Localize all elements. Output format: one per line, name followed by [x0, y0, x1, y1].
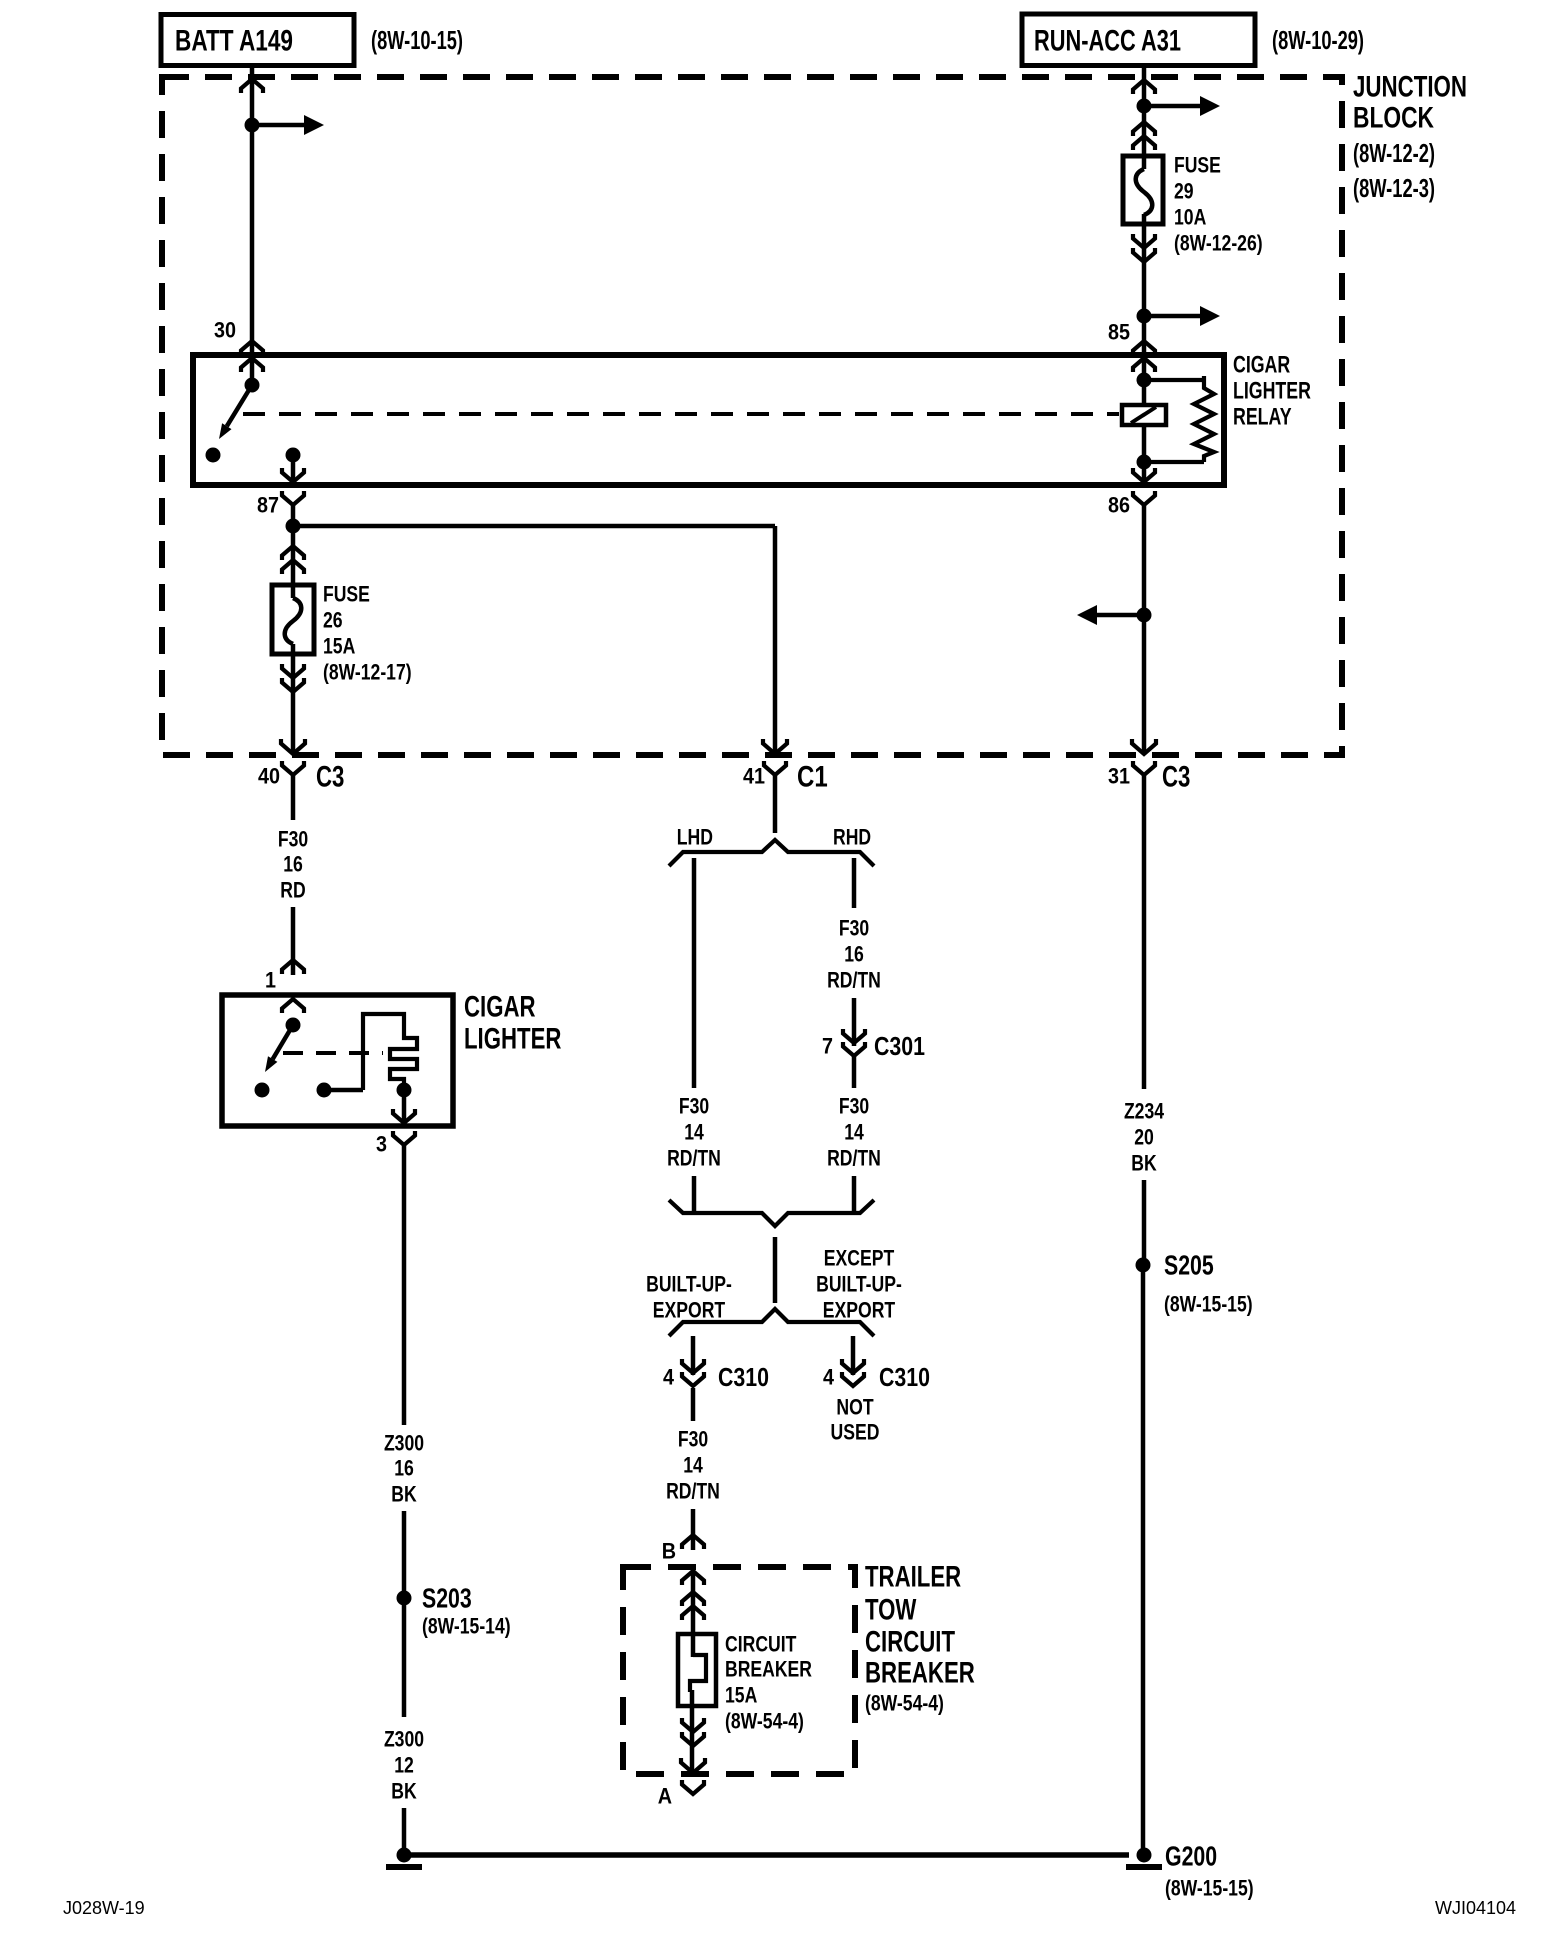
svg-text:F30: F30 — [679, 1094, 709, 1119]
svg-text:Z300: Z300 — [384, 1431, 424, 1456]
svg-text:RHD: RHD — [833, 825, 871, 850]
svg-text:(8W-12-2): (8W-12-2) — [1353, 138, 1435, 168]
svg-text:26: 26 — [323, 608, 343, 633]
svg-text:14: 14 — [683, 1453, 703, 1478]
svg-text:BUILT-UP-: BUILT-UP- — [646, 1272, 732, 1297]
svg-text:BK: BK — [391, 1779, 416, 1804]
svg-text:EXCEPT: EXCEPT — [824, 1246, 895, 1271]
svg-text:(8W-12-26): (8W-12-26) — [1174, 231, 1263, 256]
svg-text:CIGAR: CIGAR — [464, 990, 536, 1023]
svg-text:WJI04104: WJI04104 — [1435, 1898, 1516, 1918]
svg-text:RD/TN: RD/TN — [827, 968, 881, 993]
svg-text:7: 7 — [822, 1034, 833, 1059]
svg-text:Z300: Z300 — [384, 1727, 424, 1752]
svg-text:(8W-10-29): (8W-10-29) — [1272, 25, 1364, 55]
svg-text:F30: F30 — [278, 827, 308, 852]
svg-text:40: 40 — [258, 764, 280, 789]
svg-text:S205: S205 — [1164, 1250, 1214, 1281]
svg-text:LIGHTER: LIGHTER — [1233, 377, 1311, 404]
svg-text:16: 16 — [844, 942, 864, 967]
svg-text:J028W-19: J028W-19 — [63, 1898, 145, 1918]
svg-text:A: A — [658, 1784, 672, 1809]
svg-text:4: 4 — [663, 1365, 675, 1390]
svg-text:S203: S203 — [422, 1583, 472, 1614]
svg-text:(8W-15-15): (8W-15-15) — [1164, 1292, 1253, 1317]
svg-text:10A: 10A — [1174, 205, 1206, 230]
svg-text:86: 86 — [1108, 493, 1130, 518]
svg-text:(8W-54-4): (8W-54-4) — [865, 1691, 944, 1716]
svg-text:C1: C1 — [797, 760, 828, 793]
svg-text:(8W-12-3): (8W-12-3) — [1353, 173, 1435, 203]
svg-text:EXPORT: EXPORT — [823, 1298, 896, 1323]
svg-text:USED: USED — [831, 1420, 880, 1445]
svg-text:NOT: NOT — [836, 1395, 874, 1420]
svg-text:20: 20 — [1134, 1125, 1154, 1150]
svg-text:RD/TN: RD/TN — [827, 1146, 881, 1171]
svg-text:RUN-ACC A31: RUN-ACC A31 — [1034, 24, 1181, 57]
svg-text:RD: RD — [280, 878, 305, 903]
svg-text:BREAKER: BREAKER — [865, 1656, 975, 1689]
svg-text:LIGHTER: LIGHTER — [464, 1022, 562, 1055]
svg-text:RD/TN: RD/TN — [667, 1146, 721, 1171]
svg-text:BUILT-UP-: BUILT-UP- — [816, 1272, 902, 1297]
svg-text:FUSE: FUSE — [1174, 153, 1221, 178]
svg-text:(8W-10-15): (8W-10-15) — [371, 25, 463, 55]
svg-text:85: 85 — [1108, 320, 1130, 345]
svg-text:29: 29 — [1174, 179, 1194, 204]
svg-text:F30: F30 — [839, 916, 869, 941]
svg-text:CIRCUIT: CIRCUIT — [725, 1632, 797, 1657]
svg-text:87: 87 — [257, 493, 279, 518]
svg-text:G200: G200 — [1165, 1841, 1217, 1872]
svg-text:RD/TN: RD/TN — [666, 1479, 720, 1504]
svg-text:CIRCUIT: CIRCUIT — [865, 1625, 955, 1658]
svg-text:4: 4 — [823, 1365, 835, 1390]
svg-text:(8W-15-14): (8W-15-14) — [422, 1614, 511, 1639]
svg-text:EXPORT: EXPORT — [653, 1298, 726, 1323]
svg-text:(8W-12-17): (8W-12-17) — [323, 660, 412, 685]
svg-text:F30: F30 — [678, 1427, 708, 1452]
svg-text:41: 41 — [743, 764, 765, 789]
svg-text:15A: 15A — [725, 1683, 757, 1708]
svg-text:(8W-15-15): (8W-15-15) — [1165, 1876, 1254, 1901]
svg-text:TOW: TOW — [865, 1593, 917, 1626]
svg-text:BATT A149: BATT A149 — [175, 24, 293, 57]
svg-text:C310: C310 — [879, 1362, 930, 1392]
svg-text:LHD: LHD — [677, 825, 713, 850]
svg-text:Z234: Z234 — [1124, 1099, 1165, 1124]
svg-text:B: B — [662, 1539, 676, 1564]
svg-text:BREAKER: BREAKER — [725, 1657, 812, 1682]
svg-text:C301: C301 — [874, 1031, 925, 1061]
svg-text:16: 16 — [283, 852, 303, 877]
svg-text:(8W-54-4): (8W-54-4) — [725, 1709, 804, 1734]
svg-text:BK: BK — [1131, 1151, 1156, 1176]
svg-text:12: 12 — [394, 1753, 414, 1778]
svg-text:16: 16 — [394, 1456, 414, 1481]
svg-text:RELAY: RELAY — [1233, 403, 1292, 430]
svg-text:F30: F30 — [839, 1094, 869, 1119]
svg-text:3: 3 — [376, 1132, 387, 1157]
svg-text:14: 14 — [684, 1120, 704, 1145]
svg-text:14: 14 — [844, 1120, 864, 1145]
svg-text:BK: BK — [391, 1482, 416, 1507]
svg-text:31: 31 — [1108, 764, 1130, 789]
svg-text:C3: C3 — [316, 760, 344, 793]
svg-text:1: 1 — [265, 968, 276, 993]
svg-text:C310: C310 — [718, 1362, 769, 1392]
svg-text:15A: 15A — [323, 634, 355, 659]
svg-text:C3: C3 — [1162, 760, 1190, 793]
svg-text:JUNCTION: JUNCTION — [1353, 70, 1467, 103]
svg-text:BLOCK: BLOCK — [1353, 101, 1434, 134]
svg-text:FUSE: FUSE — [323, 582, 370, 607]
svg-text:CIGAR: CIGAR — [1233, 351, 1290, 378]
svg-text:TRAILER: TRAILER — [865, 1560, 961, 1593]
svg-text:30: 30 — [214, 318, 236, 343]
